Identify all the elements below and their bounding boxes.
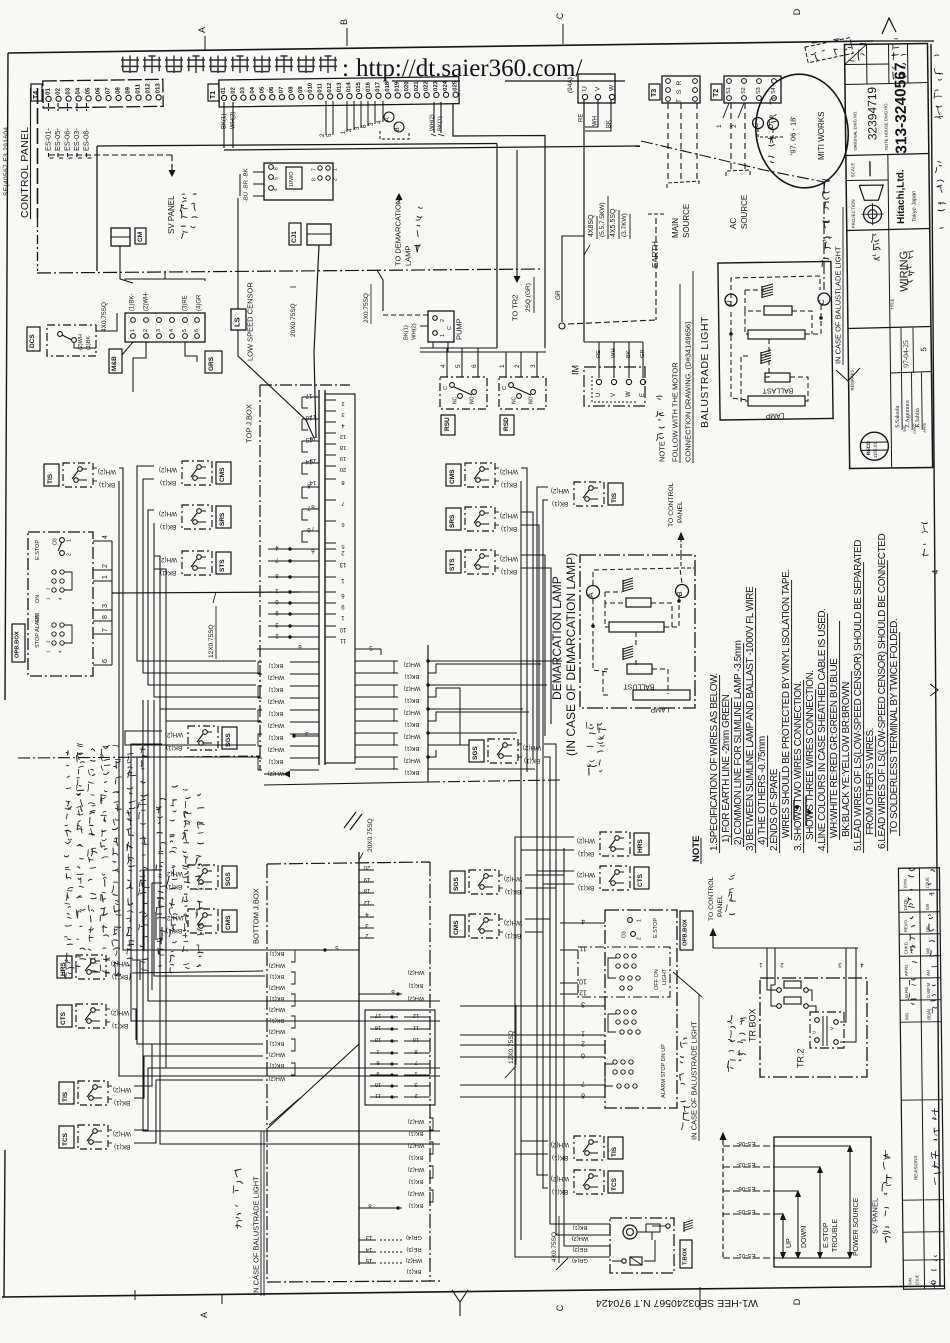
svg-text:07: 07 [279, 86, 285, 93]
revision strip texts [902, 867, 942, 1289]
svg-text:313-3240567: 313-3240567 [892, 62, 910, 154]
connector T2 label [711, 84, 722, 100]
svg-text:BOTTOM J.BOX: BOTTOM J.BOX [252, 888, 261, 944]
svg-text:12: 12 [413, 1012, 419, 1018]
switch STS label box [216, 552, 231, 574]
watermark header text [121, 55, 625, 82]
svg-text:WH(2): WH(2) [269, 1006, 286, 1012]
svg-text:20: 20 [340, 466, 346, 472]
svg-text:CMS: CMS [453, 920, 460, 935]
svg-text:WH(2): WH(2) [159, 466, 177, 473]
svg-text:32394719: 32394719 [865, 86, 880, 140]
svg-text:BK(1): BK(1) [524, 757, 540, 764]
junction dots balustrade [729, 332, 733, 336]
switch box CTS [600, 866, 630, 890]
T.BOX ground hatch [684, 1220, 693, 1232]
node D circle balustrade [725, 294, 737, 306]
svg-text:2: 2 [514, 364, 521, 368]
svg-text:18: 18 [340, 444, 346, 450]
svg-text:T: T [676, 99, 683, 103]
svg-text:BK: BK [606, 120, 612, 128]
svg-text:PUMP: PUMP [455, 318, 464, 340]
handwriting right of balustrade box [823, 258, 829, 259]
T1 last pins wires WH BK [433, 102, 435, 133]
connector T3 body [662, 76, 700, 103]
svg-text:4X5.5SQ: 4X5.5SQ [610, 208, 617, 237]
wire T1 to RSD bus [453, 103, 545, 348]
svg-text:ES-01-: ES-01- [43, 128, 52, 151]
svg-text:CONNECTION DRAWING. (D#3414965: CONNECTION DRAWING. (D#34149656) [684, 321, 693, 462]
svg-text:6: 6 [194, 329, 200, 332]
svg-text:CONTROL PANEL: CONTROL PANEL [19, 127, 31, 218]
switch HRS label box [57, 956, 72, 978]
svg-text:BK(1): BK(1) [573, 1224, 588, 1230]
node B circle [394, 122, 404, 132]
RSU leads 4 5 6 [446, 348, 448, 377]
stub 5 with wire [292, 949, 359, 951]
switch TCS label box [608, 1171, 623, 1193]
switch box CMS [465, 463, 495, 487]
ballast resistor small top [764, 306, 792, 315]
svg-text:1: 1 [499, 364, 506, 368]
terminal rail right of top jbox [427, 645, 429, 782]
RSD label box [500, 415, 514, 435]
bottom junction box outline [267, 862, 430, 864]
svg-text:O3: O3 [53, 538, 59, 545]
svg-text:MAIN: MAIN [671, 218, 680, 238]
switch STS label box [446, 551, 461, 573]
CJ1 trunk wire down [314, 245, 319, 438]
svg-text:S.Sakada: S.Sakada [895, 405, 901, 428]
svg-text:8: 8 [414, 1048, 417, 1054]
OPB2 label box [680, 911, 693, 950]
SRS wires to left bus [148, 510, 256, 685]
svg-text:E.STOP: E.STOP [823, 1222, 830, 1248]
DCS label box [27, 327, 40, 351]
svg-text:4: 4 [581, 918, 585, 925]
svg-text:20X0.75SQ: 20X0.75SQ [290, 303, 297, 337]
svg-text:(5.5,7.5KW): (5.5,7.5KW) [599, 202, 606, 237]
LS wire down [238, 330, 314, 438]
svg-text:BK(1): BK(1) [409, 982, 424, 988]
svg-text:6.LEAD WIRES OF LS(LOW-SPEED C: 6.LEAD WIRES OF LS(LOW-SPEED CENSOR) SHO… [877, 534, 888, 849]
svg-text:FOLLOW WITH THE MOTOR: FOLLOW WITH THE MOTOR [671, 362, 680, 462]
svg-text:E.STOP: E.STOP [35, 540, 41, 560]
svg-text:3: 3 [581, 1001, 585, 1008]
svg-text:20: 20 [363, 864, 370, 870]
svg-text:2.ENDS OF SPARE: 2.ENDS OF SPARE [769, 768, 780, 851]
T.BOX feed wires [550, 1100, 592, 1224]
svg-text:12: 12 [579, 989, 587, 996]
svg-text:S1: S1 [726, 87, 732, 94]
SRS-r wires right [521, 512, 533, 760]
svg-text:T3: T3 [651, 89, 658, 97]
svg-text:WH(2): WH(2) [165, 914, 183, 921]
svg-text:015: 015 [356, 81, 362, 92]
svg-text:WH(2): WH(2) [404, 661, 421, 667]
connector PUMP body [428, 311, 454, 342]
handwritten notes block left [68, 973, 73, 974]
svg-text:WH(2): WH(2) [268, 722, 285, 728]
diagonal wire bottom jbox 2 [269, 1098, 300, 1125]
demarcation handwritten annotation [414, 245, 420, 246]
svg-text:3: 3 [414, 1081, 417, 1087]
svg-text:BK(1): BK(1) [405, 697, 420, 703]
wires from terminal rail to right [428, 660, 562, 662]
svg-text:V: V [611, 393, 617, 397]
svg-text:WH(2): WH(2) [113, 1086, 131, 1093]
svg-text:RSD: RSD [503, 417, 510, 431]
main horizontal bus upper [97, 144, 497, 147]
svg-text:WH(2): WH(2) [404, 685, 421, 691]
svg-text:017: 017 [375, 81, 381, 92]
10WO wires to LS [253, 171, 264, 173]
svg-text:C: C [753, 123, 760, 128]
title row divider [847, 229, 930, 231]
svg-text:BK(1): BK(1) [578, 884, 594, 891]
svg-text:016: 016 [366, 81, 372, 92]
balustrade inner dashed wiring [731, 276, 821, 401]
svg-text:BK(1): BK(1) [160, 479, 176, 486]
svg-text:022: 022 [423, 81, 429, 92]
demarcation lamp inner wiring [593, 568, 682, 695]
svg-text:3. SHOWS TWO WIRES CONNECTI: 3. SHOWS TWO WIRES CONNECTION. [793, 681, 804, 851]
svg-text:BK:BLACK YE:YELLOW BR:BRO: BK:BLACK YE:YELLOW BR:BROWN [841, 682, 852, 837]
demarcation ground hatch 2 [623, 646, 633, 660]
svg-text:12: 12 [363, 899, 370, 905]
svg-text:R: R [676, 80, 683, 85]
GRS label box [205, 351, 222, 373]
switch SRS label box [216, 506, 231, 528]
svg-text:NO: NO [470, 396, 476, 404]
svg-text:BK(1): BK(1) [501, 568, 517, 575]
svg-text:ING.: ING. [904, 1012, 909, 1021]
switch CMS label box [446, 464, 461, 486]
svg-text:WH: WH [592, 116, 598, 126]
TR.2 wires to 3 4 [840, 1013, 846, 1022]
svg-text:GR: GR [640, 349, 646, 358]
svg-text:4: 4 [169, 329, 175, 332]
svg-text:6: 6 [581, 1052, 585, 1059]
svg-text:WH(2): WH(2) [159, 510, 177, 517]
svg-text:BK(1): BK(1) [270, 973, 285, 979]
svg-text:1: 1 [333, 168, 339, 171]
svg-text:WH(2): WH(2) [408, 1166, 425, 1172]
svg-text:11: 11 [339, 637, 346, 643]
switch HRS label box [634, 833, 649, 855]
switch SGS label box [222, 866, 237, 888]
svg-text:08: 08 [288, 86, 294, 93]
svg-text:BK(1): BK(1) [552, 1188, 568, 1195]
TR wires 1 2 3 4 [766, 948, 768, 985]
svg-text:BK(1): BK(1) [269, 758, 284, 764]
svg-text:WH(2): WH(2) [404, 733, 421, 739]
svg-text:S: S [676, 89, 683, 94]
bottom jbox lower stubs 13 14 15 [359, 1234, 422, 1274]
svg-text:06: 06 [269, 86, 275, 93]
stamp top handwriting and box [804, 35, 853, 63]
svg-text:1: 1 [414, 1070, 417, 1076]
SV panel internal arrows [774, 1146, 853, 1258]
svg-text:ES-05-: ES-05- [53, 128, 62, 151]
svg-text:WIRES SHOULD BE PROTECTED BY V: WIRES SHOULD BE PROTECTED BY VINYL ISOLA… [781, 569, 792, 838]
svg-text:ES-08-: ES-08- [81, 128, 90, 151]
leader line from LIGHT label [673, 972, 702, 997]
svg-text:17: 17 [305, 392, 312, 398]
svg-text:T4: T4 [33, 91, 40, 99]
svg-text:WH:WHITE RE:RED GR:GREE: WH:WHITE RE:RED GR:GREEN BU:BLUE [829, 658, 840, 838]
transformer box TR.BOX [760, 978, 867, 1077]
svg-text:K.Iahita: K.Iahita [915, 408, 921, 428]
bottom jbox right WH BK labels [408, 969, 433, 1208]
switch box STS [465, 550, 495, 574]
svg-text:BALUSTRADE LIGHT: BALUSTRADE LIGHT [699, 316, 711, 428]
svg-text:5.LEAD WIRES OF LS(LOW-SPEED C: 5.LEAD WIRES OF LS(LOW-SPEED CENSOR) SHO… [853, 540, 864, 851]
TIS-r wires left [537, 487, 548, 600]
title block top stamp cells [845, 63, 889, 66]
svg-text:BK(1): BK(1) [501, 525, 517, 532]
svg-text:BK(1): BK(1) [552, 1154, 568, 1161]
svg-text:12X0.75SQ: 12X0.75SQ [508, 1030, 515, 1064]
svg-text:REVO.: REVO. [903, 919, 908, 932]
svg-text:10: 10 [375, 1081, 381, 1087]
svg-text:BK(1): BK(1) [160, 523, 176, 530]
svg-text:012: 012 [144, 83, 151, 94]
DCS wires to M&B [96, 313, 117, 331]
connector T3 label [649, 84, 660, 100]
svg-text:-BR: -BR [243, 180, 249, 190]
connector CJ1 body [307, 224, 331, 245]
handwritten kana in approval cell [872, 255, 876, 256]
node C circle balustrade [818, 293, 830, 305]
main source dashed wires [667, 103, 669, 182]
switch CTS label box [634, 867, 649, 889]
CMS-r wires right [521, 468, 527, 772]
svg-text:01: 01 [221, 87, 227, 94]
svg-text:WH(2): WH(2) [504, 875, 522, 882]
ballast resistor wide [748, 330, 805, 339]
svg-text:TO CONTROL: TO CONTROL [668, 482, 675, 527]
svg-text:(2)WH: (2)WH [78, 334, 84, 350]
svg-text:8: 8 [312, 178, 318, 181]
received stamp [860, 432, 888, 460]
demarcation ground hatch 1 [623, 578, 633, 592]
OPB E.STOP switch [53, 538, 73, 556]
OPB2 up-down switch cluster 1 [608, 1010, 640, 1034]
svg-text:(B)(A): (B)(A) [926, 1008, 931, 1020]
svg-text:TIS: TIS [611, 492, 618, 503]
svg-text:TROUBLE: TROUBLE [832, 1219, 839, 1252]
svg-text:BK(1): BK(1) [505, 932, 521, 939]
wire 6 into jbox [257, 648, 319, 650]
svg-text:TR.2: TR.2 [796, 1048, 806, 1068]
svg-text:AC: AC [729, 218, 738, 229]
demarcation lamp outer box [580, 555, 695, 708]
TCS-b wires [134, 1068, 263, 1130]
svg-text:1: 1 [102, 575, 109, 579]
RSD leads 1 2 3 [505, 352, 507, 377]
svg-text:5: 5 [182, 329, 188, 332]
svg-text:MITI WORKS: MITI WORKS [817, 112, 826, 160]
bus corner down to SV panel area [96, 146, 98, 271]
sensor DCS box [47, 325, 96, 356]
control panel handwriting 1 [729, 913, 735, 916]
svg-text:12: 12 [340, 433, 346, 439]
svg-text:6: 6 [376, 1059, 379, 1065]
svg-text:C: C [817, 299, 826, 305]
TIS-b wires [134, 1044, 263, 1086]
top jbox terminal rails [318, 390, 320, 765]
demarcation lamp rect bottom [633, 690, 690, 700]
svg-text:Z.Agemura: Z.Agemura [905, 400, 911, 428]
svg-text:A: A [586, 592, 595, 597]
PUMP wires [383, 314, 428, 316]
svg-text:ON: ON [35, 595, 41, 603]
svg-text:10: 10 [579, 978, 587, 985]
top jbox left stubs upper [302, 392, 319, 553]
CTS-r wires [537, 870, 574, 872]
OPB switch cluster 2 [45, 570, 72, 600]
svg-text:LAMP: LAMP [650, 706, 669, 713]
svg-text:013: 013 [337, 82, 343, 93]
svg-text:05: 05 [85, 87, 92, 94]
svg-text:BK(1): BK(1) [112, 1022, 128, 1029]
svg-text:5/8: 5/8 [925, 903, 930, 910]
svg-text:(2)UE: (2)UE [925, 877, 930, 888]
switch box TIS [574, 482, 604, 506]
svg-text:REVISIONS: REVISIONS [913, 1156, 918, 1181]
svg-text:IN CASE OF BALUSTLADE LIGHT: IN CASE OF BALUSTLADE LIGHT [834, 246, 843, 364]
svg-text:WH(2): WH(2) [230, 112, 236, 129]
SGS wires left [125, 731, 256, 745]
svg-text:ME: ME [925, 947, 930, 954]
svg-text:1: 1 [716, 124, 723, 128]
svg-text:-BU: -BU [243, 192, 249, 202]
svg-text:4) THE OTHERS -0.75mm: 4) THE OTHERS -0.75mm [757, 736, 768, 845]
svg-text:4: 4 [440, 364, 447, 368]
svg-text:EARTH: EARTH [651, 241, 660, 268]
svg-text:WH(2): WH(2) [269, 1051, 286, 1057]
svg-text:BALLAST: BALLAST [762, 386, 793, 393]
switch box TIS [574, 1136, 604, 1160]
svg-text:2: 2 [143, 329, 149, 332]
operation panel box OPB upper [28, 532, 93, 676]
svg-text:BK(1): BK(1) [269, 710, 284, 716]
svg-text:WH(2): WH(2) [429, 114, 435, 131]
SV dashed feeder [722, 1140, 724, 1258]
svg-text:RECD: RECD [866, 441, 872, 456]
main horizontal bus lower [224, 146, 640, 150]
svg-text:PANEL: PANEL [677, 501, 684, 523]
wire to TR2 tap [516, 150, 518, 276]
svg-text:NOTE: NOTE [658, 441, 667, 462]
svg-text:BK(1): BK(1) [409, 1130, 424, 1136]
AC source bracket [726, 170, 750, 176]
wire 3 into jbox [294, 735, 319, 737]
HRS-r wires [515, 837, 574, 848]
svg-text:ES-03-: ES-03- [736, 1161, 755, 1168]
svg-text:D: D [724, 300, 733, 306]
svg-text:TCS: TCS [611, 1177, 618, 1191]
svg-text:ALARM STOP DN UP: ALARM STOP DN UP [661, 1044, 667, 1098]
switch box RSU [440, 377, 487, 409]
demarcation ballast rect [627, 664, 652, 674]
svg-text:019: 019 [395, 81, 401, 92]
CMS-b wires [156, 914, 162, 940]
svg-text:020: 020 [404, 81, 410, 92]
svg-text:3: 3 [156, 329, 162, 332]
svg-text:10: 10 [339, 626, 346, 632]
svg-text:3: 3 [102, 604, 109, 608]
earth wire GR [562, 236, 584, 322]
svg-text:GR: GR [555, 290, 562, 300]
svg-text:TO DEMARCATION: TO DEMARCATION [394, 199, 403, 266]
svg-text:023: 023 [433, 80, 439, 91]
svg-text:BK(1): BK(1) [114, 1099, 130, 1106]
svg-text:SOURCE: SOURCE [682, 204, 691, 238]
svg-text:ES-05-: ES-05- [736, 1208, 755, 1215]
svg-text:WH(2): WH(2) [98, 468, 116, 475]
svg-text:13: 13 [339, 561, 346, 567]
svg-text:WH(2): WH(2) [269, 962, 286, 968]
switch box HRS [600, 832, 630, 856]
svg-text:CTS: CTS [637, 873, 644, 887]
connector T1 body [219, 77, 459, 107]
svg-text:8: 8 [581, 1092, 585, 1099]
SV panel handwriting [886, 1236, 891, 1237]
lamp resistor wide bottom [748, 396, 805, 406]
svg-text:1105.01: 1105.01 [873, 442, 878, 458]
svg-text:WH(2): WH(2) [408, 1190, 425, 1196]
paper fold mark top right [882, 18, 896, 34]
svg-text:DOWN: DOWN [801, 1226, 808, 1248]
date cell 97-04-25 [890, 328, 892, 468]
svg-text:SHOWS THREE WIRES CONNECTION.: SHOWS THREE WIRES CONNECTION. [805, 670, 816, 840]
svg-text:BK(1): BK(1) [409, 1154, 424, 1160]
svg-text:06: 06 [95, 87, 102, 94]
svg-text:4X8SQ: 4X8SQ [588, 214, 595, 237]
SGS right-mid wires [544, 744, 556, 860]
svg-text:03: 03 [240, 86, 246, 93]
svg-text:021: 021 [414, 81, 420, 92]
svg-text:LS: LS [233, 317, 242, 327]
svg-text:BK(1): BK(1) [405, 745, 420, 751]
T.BOX label box [680, 1240, 692, 1268]
svg-text:PROJECTION: PROJECTION [851, 199, 856, 228]
switch box SGS [488, 739, 518, 763]
svg-text:AH: AH [926, 970, 931, 976]
svg-text:2: 2 [414, 1092, 417, 1098]
svg-text:01: 01 [45, 87, 52, 94]
ground hatch 1 [762, 284, 773, 298]
svg-text:05: 05 [260, 86, 266, 93]
CTS-b wires [132, 1009, 136, 1040]
svg-text:IN CASE OF BALUSTRADE LIGHT: IN CASE OF BALUSTRADE LIGHT [252, 1176, 261, 1295]
svg-text:11: 11 [579, 945, 586, 952]
chain line to balustrade C terminal [641, 141, 824, 182]
svg-text:WH(2): WH(2) [500, 512, 518, 519]
svg-text:WH(2): WH(2) [404, 757, 421, 763]
ES wire stubs to SV panel [723, 1140, 774, 1259]
vertical bus wires center-right [515, 600, 564, 1240]
connector M&B body [125, 313, 205, 342]
svg-text:SRS: SRS [449, 514, 456, 528]
demarcation lamp rect top [626, 598, 651, 607]
horizontal chain line mid page [18, 757, 166, 758]
svg-text:ES-06-: ES-06- [736, 1185, 755, 1192]
svg-text:(IN CASE OF DEMARCATION LAMP): (IN CASE OF DEMARCATION LAMP) [564, 553, 578, 756]
svg-text:(2)UE: (2)UE [914, 1274, 919, 1285]
